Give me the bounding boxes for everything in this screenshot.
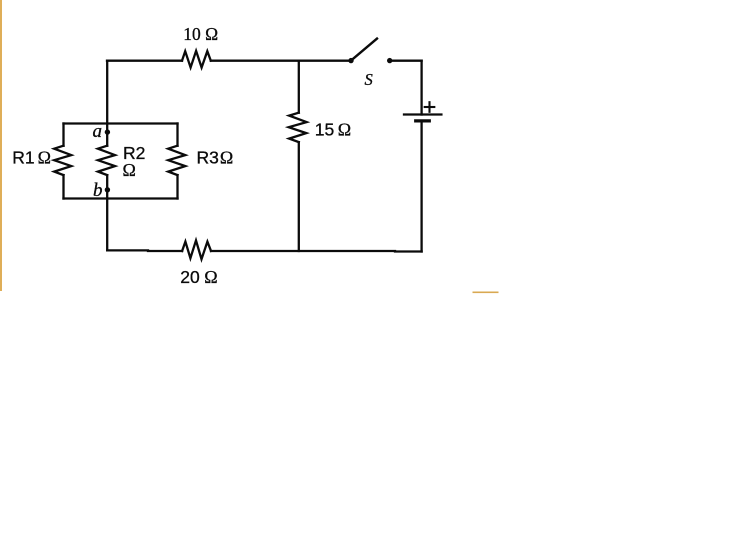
svg-text:10 Ω: 10 Ω — [183, 24, 218, 44]
svg-text:20: 20 — [180, 267, 200, 287]
svg-text:Ω: Ω — [123, 160, 136, 180]
svg-text:Ω: Ω — [204, 267, 217, 287]
svg-text:a: a — [93, 121, 103, 142]
svg-text:R1: R1 — [12, 148, 34, 168]
svg-text:Ω: Ω — [220, 148, 233, 168]
svg-text:R3: R3 — [197, 148, 219, 168]
svg-text:b: b — [93, 180, 103, 201]
svg-text:Ω: Ω — [38, 148, 51, 168]
svg-text:Ω: Ω — [338, 120, 351, 140]
svg-text:15: 15 — [315, 120, 334, 140]
svg-text:S: S — [365, 70, 373, 89]
